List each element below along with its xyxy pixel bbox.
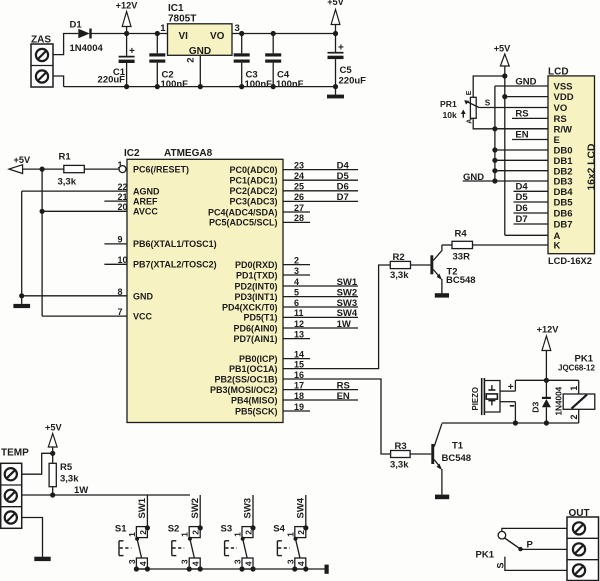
svg-text:IC1: IC1 [168,3,184,14]
svg-text:21: 21 [118,192,128,202]
svg-text:PB5(SCK): PB5(SCK) [235,406,278,416]
svg-text:K: K [554,241,561,252]
svg-text:PD7(AIN1): PD7(AIN1) [233,334,277,344]
svg-text:R2: R2 [393,252,405,263]
svg-text:1: 1 [285,532,295,537]
svg-text:D5: D5 [337,171,350,182]
svg-text:+5V: +5V [45,423,62,433]
svg-text:PD6(AIN0): PD6(AIN0) [233,323,277,333]
svg-text:PB2(SS/OC1B): PB2(SS/OC1B) [214,374,277,384]
svg-text:5: 5 [294,287,299,297]
svg-text:BC548: BC548 [442,453,472,464]
svg-text:4: 4 [243,561,253,566]
svg-text:PC1(ADC1): PC1(ADC1) [229,176,277,186]
svg-text:SW3: SW3 [337,298,358,309]
svg-text:S3: S3 [221,524,233,535]
svg-text:+: + [338,43,344,54]
svg-text:+: + [508,382,514,393]
svg-text:10: 10 [118,255,128,265]
svg-text:+12V: +12V [537,325,560,335]
svg-text:220uF: 220uF [98,75,126,86]
svg-text:+: + [129,46,135,57]
svg-text:AREF: AREF [133,196,158,206]
svg-text:A: A [466,119,473,124]
svg-text:SW4: SW4 [295,497,306,518]
svg-text:PK1: PK1 [476,550,495,561]
svg-text:2: 2 [294,255,299,265]
svg-text:PC0(ADC0): PC0(ADC0) [229,165,277,175]
svg-text:10k: 10k [443,110,458,120]
svg-text:2: 2 [296,530,306,535]
svg-text:PD1(TXD): PD1(TXD) [236,270,278,280]
svg-text:DB4: DB4 [554,187,574,198]
svg-text:27: 27 [294,203,304,213]
svg-text:EN: EN [337,391,350,402]
svg-text:PB4(MISO): PB4(MISO) [231,395,278,405]
svg-text:RS: RS [515,108,528,119]
svg-text:2: 2 [191,530,201,535]
svg-text:E: E [554,135,560,146]
svg-text:PC5(ADC5/SCL): PC5(ADC5/SCL) [209,218,278,228]
svg-text:9: 9 [118,235,123,245]
svg-text:SW3: SW3 [243,498,254,519]
svg-text:15: 15 [294,359,304,369]
svg-text:100nF: 100nF [161,79,189,90]
svg-text:TEMP: TEMP [1,448,29,459]
svg-text:D4: D4 [516,181,529,192]
svg-text:3: 3 [285,559,295,564]
svg-text:PC3(ADC3): PC3(ADC3) [229,197,277,207]
svg-text:D4: D4 [337,160,350,171]
svg-text:18: 18 [294,391,304,401]
svg-text:PB0(ICP): PB0(ICP) [239,354,278,364]
svg-text:D1: D1 [70,20,83,31]
svg-text:+5V: +5V [494,44,511,54]
svg-text:100nF: 100nF [276,79,304,90]
svg-text:SW2: SW2 [190,498,201,519]
svg-text:VO: VO [554,103,568,114]
svg-text:PD4(XCK/T0): PD4(XCK/T0) [222,302,278,312]
svg-text:R3: R3 [395,441,407,452]
svg-text:T1: T1 [452,441,464,452]
svg-text:VO: VO [210,31,225,42]
svg-text:4: 4 [191,561,201,566]
svg-text:S: S [496,562,506,568]
svg-text:JQC68-12: JQC68-12 [558,364,595,373]
svg-text:17: 17 [294,380,304,390]
svg-text:S1: S1 [115,524,127,535]
svg-text:20: 20 [118,202,128,212]
svg-text:3: 3 [235,23,240,34]
svg-text:2: 2 [569,414,579,419]
svg-text:D3: D3 [531,401,541,412]
svg-text:1: 1 [233,532,243,537]
svg-text:PR1: PR1 [440,99,457,109]
svg-text:7: 7 [118,307,123,317]
svg-text:GND: GND [463,172,484,183]
svg-text:S: S [485,98,491,107]
svg-text:ATMEGA8: ATMEGA8 [164,148,213,159]
svg-text:D7: D7 [337,192,349,203]
svg-text:3: 3 [233,559,243,564]
svg-text:BC548: BC548 [446,275,476,286]
svg-text:3,3k: 3,3k [58,177,77,188]
svg-text:GND: GND [515,76,536,87]
svg-text:3,3k: 3,3k [60,474,79,485]
svg-text:28: 28 [294,213,304,223]
svg-text:PB6(XTAL1/TOSC1): PB6(XTAL1/TOSC1) [133,239,217,249]
svg-text:+5V: +5V [327,0,344,7]
svg-text:D7: D7 [516,214,528,225]
svg-text:PB1(OC1A): PB1(OC1A) [229,364,278,374]
svg-text:100nF: 100nF [245,79,273,90]
svg-text:1N4004: 1N4004 [555,386,564,415]
svg-text:PD0(RXD): PD0(RXD) [235,260,278,270]
svg-text:AVCC: AVCC [133,207,158,217]
svg-text:24: 24 [294,171,304,181]
svg-text:13: 13 [294,329,304,339]
svg-text:4: 4 [294,277,299,287]
svg-text:3: 3 [127,559,137,564]
svg-text:PB7(XTAL2/TOSC2): PB7(XTAL2/TOSC2) [133,260,217,270]
svg-text:PD2(INT0): PD2(INT0) [234,281,277,291]
svg-text:4: 4 [296,561,306,566]
svg-text:1W: 1W [74,485,88,496]
svg-text:AGND: AGND [133,186,160,196]
svg-text:IC2: IC2 [124,148,140,159]
svg-text:PD3(INT1): PD3(INT1) [234,292,277,302]
svg-text:+5V: +5V [14,155,31,165]
svg-text:S2: S2 [168,524,180,535]
svg-text:2: 2 [138,530,148,535]
svg-text:R1: R1 [59,152,72,163]
svg-text:SW4: SW4 [337,308,358,319]
svg-text:14: 14 [294,349,304,359]
svg-text:220uF: 220uF [339,76,367,87]
svg-text:R5: R5 [60,462,73,473]
svg-text:25: 25 [294,182,304,192]
svg-text:SW1: SW1 [137,497,148,518]
svg-text:1N4004: 1N4004 [70,43,104,54]
svg-text:2: 2 [243,530,253,535]
svg-text:VCC: VCC [133,311,153,321]
svg-text:RS: RS [554,114,567,125]
svg-text:GND: GND [133,291,154,301]
svg-text:1: 1 [127,532,137,537]
svg-text:SW1: SW1 [337,277,358,288]
svg-text:EN: EN [515,129,528,140]
svg-text:33R: 33R [453,252,471,263]
svg-text:DB1: DB1 [554,156,574,167]
svg-text:12: 12 [294,319,304,329]
svg-text:R4: R4 [455,229,468,240]
svg-text:DB5: DB5 [554,198,574,209]
svg-text:3,3k: 3,3k [390,270,409,281]
svg-text:SW2: SW2 [337,287,358,298]
svg-text:D6: D6 [516,203,528,214]
svg-text:RS: RS [337,380,350,391]
svg-text:D6: D6 [337,182,349,193]
svg-text:4: 4 [138,561,148,566]
svg-text:R/W: R/W [554,124,573,135]
svg-text:11: 11 [294,308,304,318]
svg-text:D5: D5 [516,192,529,203]
svg-text:PB3(MOSI/OC2): PB3(MOSI/OC2) [210,385,278,395]
svg-text:1: 1 [180,532,190,537]
svg-text:DB7: DB7 [554,220,573,231]
svg-text:3,3k: 3,3k [390,460,409,471]
svg-text:VI: VI [179,31,189,42]
svg-text:PC4(ADC4/SDA): PC4(ADC4/SDA) [208,207,278,217]
svg-text:3: 3 [180,559,190,564]
svg-text:2: 2 [186,58,197,63]
svg-text:6: 6 [294,298,299,308]
svg-text:PC2(ADC2): PC2(ADC2) [229,186,277,196]
svg-text:DB6: DB6 [554,209,573,220]
svg-text:C5: C5 [340,65,353,76]
svg-text:22: 22 [118,182,128,192]
svg-text:+12V: +12V [116,1,139,11]
svg-text:VSS: VSS [554,82,573,93]
svg-text:S4: S4 [273,524,285,535]
svg-text:26: 26 [294,192,304,202]
svg-text:16x2 LCD: 16x2 LCD [586,144,597,191]
svg-text:PC6(/RESET): PC6(/RESET) [133,164,189,174]
svg-text:23: 23 [294,160,304,170]
svg-text:7805T: 7805T [168,14,196,25]
svg-text:1: 1 [569,386,579,391]
svg-text:E: E [466,90,473,95]
svg-text:PIEZO: PIEZO [471,387,480,410]
svg-text:1W: 1W [337,319,351,330]
svg-text:LCD-16X2: LCD-16X2 [548,256,592,266]
svg-text:1: 1 [160,23,166,34]
svg-text:19: 19 [294,402,304,412]
svg-text:3: 3 [294,266,299,276]
svg-text:16: 16 [294,370,304,380]
svg-text:PD5(T1): PD5(T1) [243,313,277,323]
svg-text:VDD: VDD [554,92,574,103]
